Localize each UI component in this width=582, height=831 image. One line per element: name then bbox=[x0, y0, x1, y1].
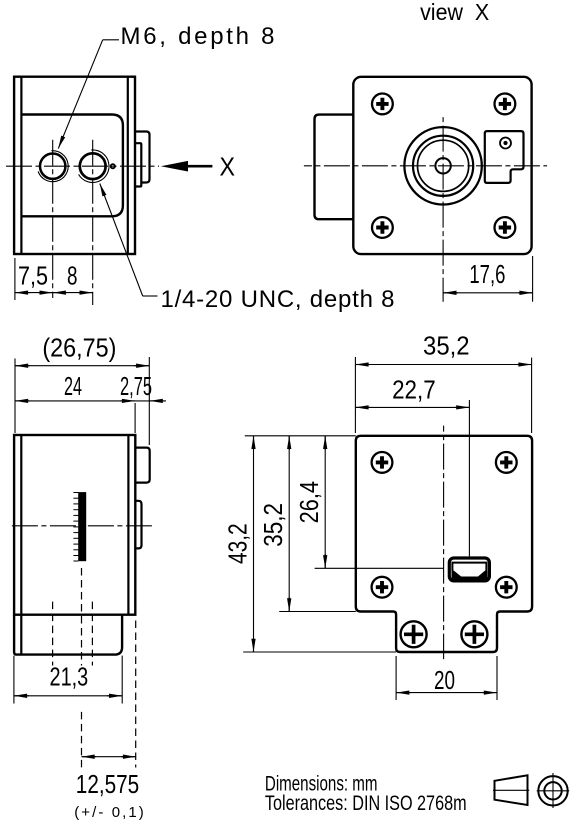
svg-text:35,2: 35,2 bbox=[423, 331, 470, 361]
svg-text:12,575: 12,575 bbox=[76, 769, 139, 799]
svg-text:view X: view X bbox=[420, 0, 489, 25]
svg-text:21,3: 21,3 bbox=[50, 661, 89, 691]
svg-text:20: 20 bbox=[434, 665, 455, 695]
svg-text:(26,75): (26,75) bbox=[42, 332, 116, 362]
svg-text:Tolerances: DIN ISO 2768m: Tolerances: DIN ISO 2768m bbox=[265, 792, 467, 815]
svg-text:24: 24 bbox=[64, 371, 82, 401]
svg-text:X: X bbox=[220, 151, 236, 181]
svg-text:7,5: 7,5 bbox=[18, 260, 48, 290]
svg-text:22,7: 22,7 bbox=[392, 374, 436, 404]
svg-text:35,2: 35,2 bbox=[258, 503, 288, 547]
svg-text:8: 8 bbox=[67, 260, 78, 290]
svg-text:17,6: 17,6 bbox=[469, 259, 505, 289]
svg-text:1/4-20 UNC, depth 8: 1/4-20 UNC, depth 8 bbox=[161, 286, 395, 313]
svg-text:(+/- 0,1): (+/- 0,1) bbox=[74, 804, 144, 821]
svg-text:M6, depth 8: M6, depth 8 bbox=[121, 23, 275, 50]
svg-text:26,4: 26,4 bbox=[294, 481, 324, 523]
svg-text:43,2: 43,2 bbox=[223, 523, 253, 564]
svg-text:2,75: 2,75 bbox=[120, 371, 152, 401]
